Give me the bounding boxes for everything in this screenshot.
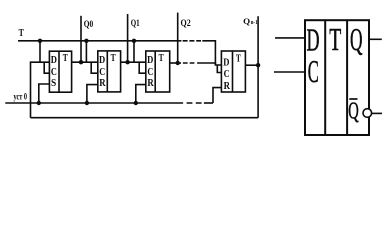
wire: feedback drop from Qn-1 node (257, 65, 259, 118)
svg-text:n-1: n-1 (251, 19, 258, 26)
svg-text:T: T (19, 28, 24, 39)
junction dot уст0 to FF3 R (134, 101, 138, 105)
wire: Q2 riser (177, 13, 179, 63)
svg-text:R: R (224, 81, 231, 92)
wire: уст 0 line solid part (5, 102, 183, 104)
FF2 box outline (98, 51, 121, 92)
inversion bubble on U5 Q-bar output (363, 109, 372, 118)
wire: уст 0 line end to FF4 R (204, 102, 213, 104)
svg-text:Q: Q (243, 16, 250, 26)
junction dot Qn-1 tap (256, 63, 260, 67)
svg-text:C: C (308, 53, 319, 89)
U5 section divider 2 (346, 20, 348, 135)
svg-text:S: S (51, 78, 57, 89)
junction dot on T line for FF1 clock (38, 39, 42, 43)
FF3 section divider (154, 51, 156, 92)
junction dot on T line for FF2 clock (84, 39, 88, 43)
wire: FF1 S riser from set line (39, 84, 50, 103)
wire: FF2 C drop and stub (91, 62, 98, 73)
U5 section divider 1 (324, 20, 326, 135)
wire: FF4 C drop and stub (217, 65, 221, 73)
svg-text:D: D (99, 55, 105, 66)
junction dot on T line for FF3 clock (132, 39, 136, 43)
wire: FF2 output line to FF3 D input (121, 61, 146, 63)
svg-text:D: D (307, 21, 320, 57)
wire: FF3 R riser from set line (136, 85, 146, 103)
flip-flop FF4 (D,C,R trigger) (221, 51, 245, 92)
junction dot Q2 tap (176, 61, 180, 65)
junction dot уст0 to FF1 S (37, 101, 41, 105)
wire: Q1 riser (127, 14, 129, 62)
wire: T clock line solid part (18, 40, 181, 42)
svg-text:T: T (63, 53, 68, 64)
svg-text:R: R (147, 78, 154, 89)
svg-text:Q: Q (348, 98, 359, 125)
svg-text:T: T (159, 53, 164, 64)
svg-text:C: C (99, 67, 105, 78)
FF4 box outline (221, 51, 245, 92)
FF1 box outline (49, 51, 71, 92)
wire: уст 0 line dashed part (187, 102, 202, 104)
wire: U5 D input stub (275, 37, 305, 39)
FF1 section divider (58, 51, 60, 92)
svg-text:Q2: Q2 (181, 19, 191, 29)
svg-text:T: T (236, 54, 241, 65)
svg-text:уст 0: уст 0 (14, 91, 28, 101)
wire: FF4 output line (245, 64, 258, 66)
U5 box outline (305, 20, 369, 135)
wire: U5 Q-bar output stub (372, 112, 382, 114)
svg-text:C: C (51, 67, 57, 78)
junction dot уст0 to FF2 R (85, 101, 89, 105)
FF3 box outline (146, 51, 170, 92)
wire: FF3 output line solid part (170, 62, 181, 64)
wire: FF4 R stub from set line corner (213, 88, 221, 103)
overline of Q-bar (U5) (349, 98, 357, 100)
svg-text:Q0: Q0 (84, 20, 94, 30)
junction dot Q0 tap (79, 60, 83, 64)
wire: FF1 D input line from feedback riser (31, 62, 50, 117)
svg-text:C: C (147, 67, 153, 78)
wire: FF1 C drop and stub (44, 62, 49, 73)
flip-flop FF3 (D,C,R trigger) (146, 51, 170, 92)
FF2 section divider (106, 51, 108, 92)
wire: U5 C input stub (274, 71, 305, 73)
wire: T clock line end + corner down to FF4 (202, 41, 215, 65)
svg-text:R: R (99, 78, 106, 89)
wire: Qn-1 riser (257, 16, 259, 65)
T-trigger symbol U5 (detached symbol at right) (305, 20, 369, 135)
wire: bottom feedback line to FF1 D (31, 117, 259, 119)
svg-text:Q: Q (350, 21, 363, 57)
wire: FF2 clock drop (85, 41, 87, 62)
wire: FF3 clock drop (133, 41, 135, 62)
flip-flop FF1 (D,C,S trigger) (49, 51, 71, 92)
wire: Q0 riser (80, 16, 82, 62)
svg-text:D: D (147, 55, 153, 66)
wire: T clock line dashed part (183, 40, 201, 42)
flip-flop FF2 (D,C,R trigger) (98, 51, 121, 92)
wire: D line into FF4 (197, 63, 221, 65)
svg-text:D: D (223, 57, 229, 68)
wire: FF1 output line to FF2 D input (72, 61, 98, 63)
wire: FF1 clock drop to D-level line (39, 41, 41, 62)
wire: FF3 C drop and stub (139, 62, 146, 73)
wire: U5 Q output stub (369, 38, 382, 40)
FF4 section divider (232, 51, 234, 92)
svg-text:C: C (224, 69, 230, 80)
svg-text:D: D (51, 55, 57, 66)
wire: FF2 R riser from set line (87, 85, 98, 103)
wire: FF3 output dashed continuation (183, 62, 196, 64)
junction dot Q1 tap (125, 60, 129, 64)
svg-text:T: T (111, 53, 116, 64)
svg-text:Q1: Q1 (131, 19, 140, 29)
svg-text:T: T (329, 21, 341, 57)
